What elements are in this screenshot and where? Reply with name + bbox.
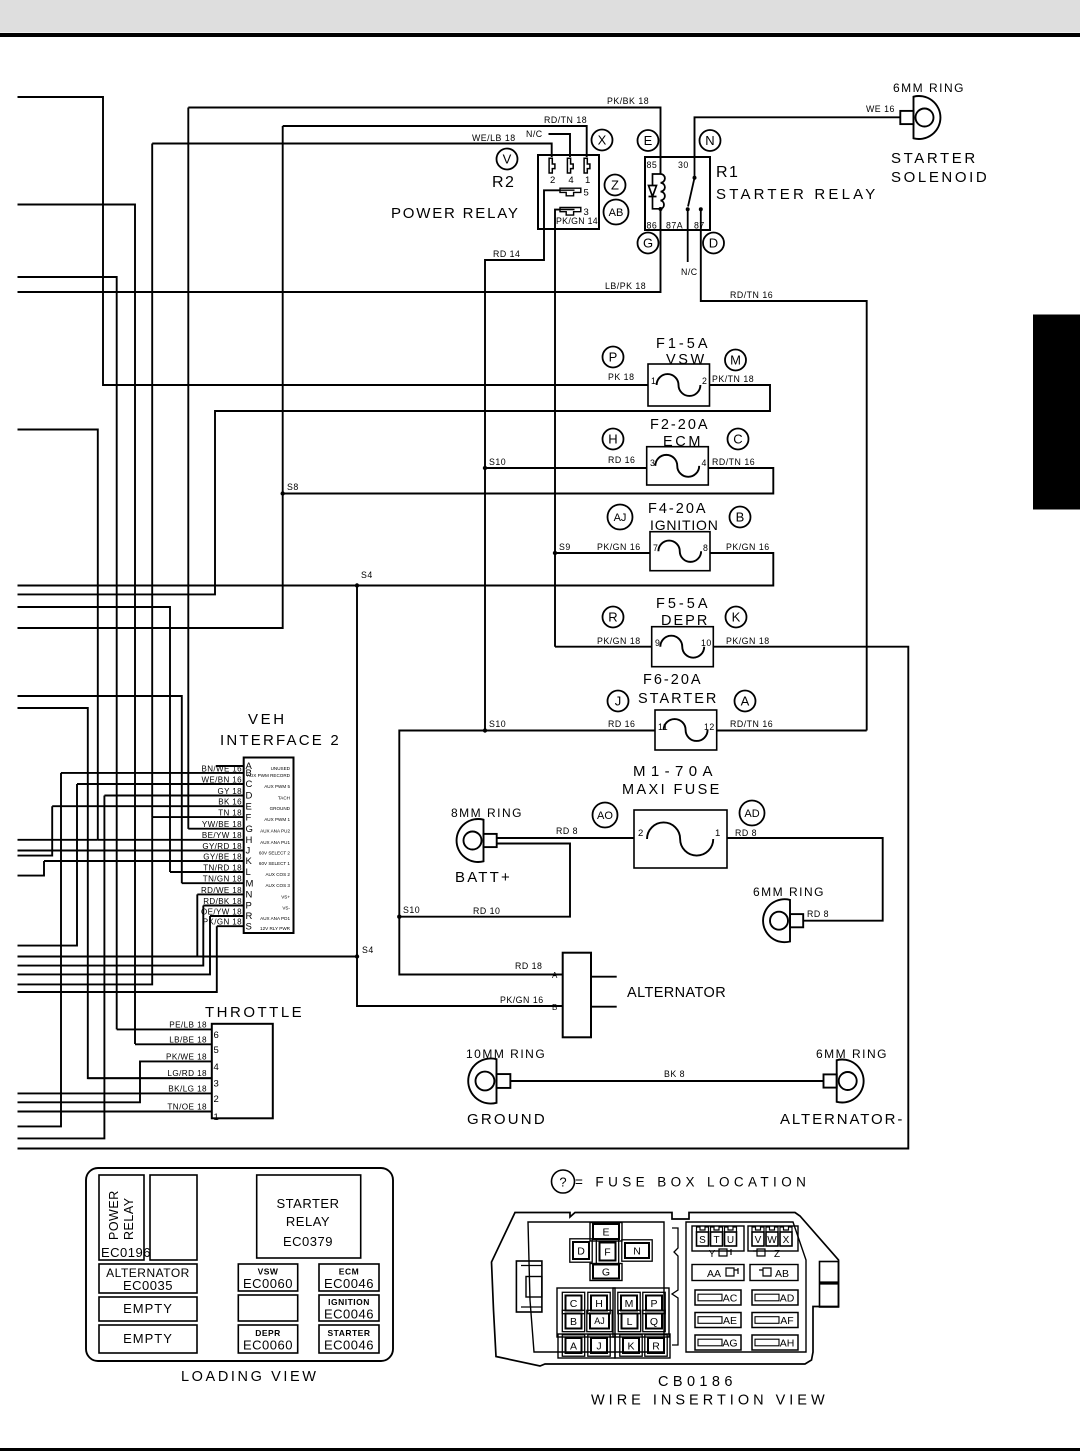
svg-text:PK/GN 18: PK/GN 18 [726,636,770,646]
header rule [0,33,1080,37]
svg-text:GY 18: GY 18 [217,787,242,796]
empty fuse slot [238,1295,297,1321]
fuse box location G [638,233,659,254]
svg-text:AA: AA [707,1268,721,1280]
svg-text:STARTER: STARTER [891,150,978,167]
svg-text:H: H [608,432,617,447]
CB0186 fuse box outer outline [492,1213,839,1367]
svg-text:ECM: ECM [663,434,703,450]
svg-text:F: F [246,812,252,823]
starter solenoid ring terminal [900,96,940,139]
svg-text:N: N [246,890,253,901]
cavity AG [695,1335,741,1350]
cavity D [570,1239,592,1262]
svg-text:J: J [615,694,622,709]
svg-text:10MM RING: 10MM RING [466,1047,546,1061]
wire row P drop exit [18,906,204,966]
bottom row frame [558,1334,615,1358]
svg-text:DEPR: DEPR [255,1328,281,1338]
svg-text:RELAY: RELAY [286,1214,330,1229]
svg-text:F1-5A: F1-5A [656,336,711,352]
svg-text:AB: AB [775,1268,789,1280]
wire S8 riser from left edge y628 [18,126,283,628]
right mounting tab [820,1262,839,1308]
svg-text:TACH: TACH [278,796,290,801]
svg-text:H: H [246,835,253,846]
svg-text:AUX ANA PU2: AUX ANA PU2 [260,829,290,834]
svg-text:PK/GN 14: PK/GN 14 [556,216,598,226]
svg-text:W: W [767,1235,777,1246]
svg-text:STARTER: STARTER [277,1196,340,1211]
svg-text:R1: R1 [716,164,739,181]
wire S10 -> F2 pin 3 [485,467,647,469]
wire row K jog exit [18,861,45,876]
wire PK/WE to pin 4 [18,1061,212,1102]
svg-text:RD 16: RD 16 [608,455,635,465]
cavity AJ [587,1310,612,1331]
svg-text:AJ: AJ [614,512,627,524]
svg-text:4: 4 [702,458,707,468]
svg-text:X: X [783,1235,790,1246]
cavity M [618,1292,640,1313]
cavity AE [695,1313,741,1328]
svg-text:3: 3 [650,458,655,468]
svg-text:S4: S4 [361,570,373,580]
svg-text:S10: S10 [403,905,420,915]
fuse box location A [735,691,756,712]
wire bus: left y607 -> x170 [18,607,171,872]
svg-text:LOADING VIEW: LOADING VIEW [181,1369,319,1385]
svg-text:S8: S8 [287,482,299,492]
fuse box location C [728,429,749,450]
svg-text:RD/TN 18: RD/TN 18 [544,115,587,125]
svg-text:87A: 87A [666,221,683,231]
cavity N [622,1240,652,1261]
wire PK/BK 18: x188 bus top -> R1 coil 85 [188,108,660,175]
svg-text:RD/TN 16: RD/TN 16 [730,719,773,729]
svg-text:VS-: VS- [282,906,290,911]
wire PE/LB to pin 6 [117,1028,212,1030]
splice S4 #2 [355,954,359,958]
ground ring terminal [468,1058,510,1103]
R2 pin 2 [549,158,555,186]
left fuse cluster frame 2 [613,1288,669,1337]
wire row F drop exit [18,817,153,984]
svg-text:60V SELECT 2: 60V SELECT 2 [259,851,291,856]
svg-text:STARTER RELAY: STARTER RELAY [716,186,878,203]
svg-text:AD: AD [744,808,759,820]
svg-text:WIRE INSERTION VIEW: WIRE INSERTION VIEW [591,1393,829,1409]
svg-text:TN 18: TN 18 [218,809,242,818]
svg-text:TN/GN 18: TN/GN 18 [203,875,242,884]
wire row C drop exit [18,784,78,946]
svg-text:8: 8 [703,543,708,553]
svg-text:GROUND: GROUND [467,1111,547,1128]
splice S10 [483,466,487,470]
fuse box location E [638,130,659,151]
empty slot 1 [99,1297,197,1321]
svg-text:M1-70A: M1-70A [633,763,718,780]
svg-text:5: 5 [214,1045,219,1056]
fuse box location R [603,607,624,628]
wire row N drop to S4 rail [18,894,198,956]
svg-text:AUX COS 3: AUX COS 3 [265,883,290,888]
svg-text:RD 14: RD 14 [493,249,520,259]
svg-text:EC0046: EC0046 [324,1338,374,1353]
fuse box location legend [552,1170,575,1193]
svg-text:POWER: POWER [107,1190,121,1240]
wire GY 18 to VEH pin D [104,795,243,797]
svg-text:AE: AE [723,1315,737,1327]
wire bus: left y429 -> x97.8 [18,430,98,840]
svg-text:9: 9 [655,638,660,648]
svg-text:= FUSE BOX LOCATION: = FUSE BOX LOCATION [575,1175,810,1190]
cavity E [593,1224,619,1239]
center divider [672,1228,678,1345]
svg-text:D: D [246,791,253,802]
svg-text:G: G [643,236,653,251]
svg-text:PK 18: PK 18 [608,372,634,382]
R2 pin 1 [584,158,590,186]
splice S4 [355,583,359,587]
svg-text:1: 1 [214,1112,219,1123]
wire F6 pin12 -> x866 bus (to 87) [717,730,867,732]
cavity S [697,1227,709,1246]
svg-text:N: N [705,133,714,148]
alternator slot [99,1264,197,1293]
svg-text:J: J [596,1340,601,1352]
wire row S drop exit [18,926,217,992]
fuse box location AO [593,803,618,828]
svg-text:ALTERNATOR-: ALTERNATOR- [780,1111,904,1128]
wire F2 pin4 loop to S8 [283,468,774,494]
6MM ring terminal (RD 8) [763,899,803,942]
svg-text:ECM: ECM [339,1267,359,1277]
svg-text:BK 16: BK 16 [218,798,242,807]
wire S10 trunk: S10#2 to S10#3 to alternator A [399,731,562,975]
svg-text:B: B [552,1003,558,1012]
wire RD/TN 16: R1 pin 87 down/right to x866 bus [701,230,867,731]
wire OE/YW 18 to VEH pin R [210,915,244,917]
svg-text:F: F [604,1246,610,1258]
left fuse cluster frame 1 [557,1288,615,1337]
wire row B drop to throttle area exit [18,773,62,1127]
cavity T [711,1227,723,1246]
alternator box [563,953,591,1038]
svg-text:F2-20A: F2-20A [650,417,710,433]
svg-text:V: V [503,152,512,167]
power relay R2 box [538,155,599,229]
wire RD 8: M1 pin1 -> 6MM ring [727,838,883,921]
cavity H [588,1292,610,1313]
svg-text:TN/OE 18: TN/OE 18 [167,1103,207,1112]
svg-text:RD 8: RD 8 [735,828,757,838]
cavity AD [752,1290,798,1305]
fuse box location H [603,429,624,450]
ignition fuse slot [319,1295,379,1321]
svg-text:BE/YW 18: BE/YW 18 [202,831,242,840]
alternator stub pins right [591,976,617,978]
svg-text:K: K [246,856,253,867]
svg-text:5: 5 [584,188,589,199]
svg-text:G: G [602,1266,610,1278]
svg-text:30: 30 [678,160,689,170]
svg-text:L: L [627,1316,633,1328]
svg-text:AO: AO [597,810,613,822]
svg-text:Z: Z [611,178,619,193]
svg-text:EC0035: EC0035 [123,1278,173,1293]
svg-text:WE 16: WE 16 [866,104,895,114]
svg-text:S4: S4 [362,945,374,955]
svg-text:1: 1 [585,175,590,186]
fuse box location X [592,130,613,151]
R2 pin 5 [560,188,589,199]
svg-text:IGNITION: IGNITION [328,1297,370,1307]
wire LG/RD to pin 3 [88,1077,212,1079]
svg-text:CB0186: CB0186 [658,1374,737,1390]
wire RD 14: R2 pin5 -> S10 bus [485,190,560,730]
cavity W [766,1227,778,1246]
svg-text:85: 85 [647,160,658,170]
svg-text:AH: AH [780,1338,795,1350]
wire YW/BE 18 to VEH pin G [188,828,243,830]
svg-text:AUX PWM 1: AUX PWM 1 [264,817,290,822]
svg-text:PK/GN 16: PK/GN 16 [597,542,641,552]
svg-text:LB/PK 18: LB/PK 18 [605,281,646,291]
svg-text:LG/RD 18: LG/RD 18 [167,1069,207,1078]
splice S10 #3 [397,915,401,919]
svg-text:RELAY: RELAY [122,1197,136,1240]
svg-text:AF: AF [780,1315,793,1327]
svg-text:B: B [570,1316,577,1328]
svg-text:6MM RING: 6MM RING [893,81,965,95]
svg-text:A: A [570,1340,577,1352]
cavity Q [643,1310,665,1331]
splice S8 [281,491,285,495]
cavity Y [709,1249,731,1260]
fuse box location N [700,130,721,151]
svg-text:AUX PWM 5: AUX PWM 5 [264,784,290,789]
svg-text:L: L [246,867,251,878]
cavity Z [753,1249,780,1260]
svg-text:Y: Y [709,1249,716,1260]
fuse F6 [655,710,717,750]
cavity AF [752,1313,798,1328]
wire F4 pin8 loop to S4 line [18,553,774,586]
fuse box location AB [604,200,629,225]
wire F1 pin2 loop to left edge [18,385,771,594]
svg-text:S: S [246,921,252,932]
wire row E jog exit [18,806,53,855]
svg-text:10: 10 [701,638,712,648]
right cluster S T U with prongs [692,1226,744,1251]
svg-text:BK/LG 18: BK/LG 18 [168,1084,207,1093]
svg-text:R: R [608,610,617,625]
svg-text:E: E [644,133,653,148]
wire bus: left y696 -> x181.8 [18,696,182,883]
fuse box location D [703,233,724,254]
svg-text:R2: R2 [492,174,515,191]
svg-text:R: R [652,1340,660,1352]
wire TN 18 to VEH pin F [152,816,244,818]
svg-text:EC0196: EC0196 [101,1245,151,1260]
wire RD/BK 18 to VEH pin P [203,905,243,907]
svg-text:C: C [570,1298,578,1310]
R2 pin 3 [560,207,589,218]
svg-text:F6-20A: F6-20A [643,672,703,688]
svg-text:?: ? [559,1175,566,1190]
svg-text:S10: S10 [489,719,506,729]
empty slot 2 [99,1325,197,1353]
wire S9 -> F4 pin 7 [555,552,650,554]
wire row J exit [18,850,41,852]
fuse F5 [652,627,714,667]
svg-text:PE/LB 18: PE/LB 18 [169,1020,207,1029]
svg-text:N/C: N/C [526,129,543,139]
svg-text:M: M [730,353,741,368]
wire BK 8 ground to alternator- ring [511,1080,824,1082]
svg-text:VSW: VSW [258,1267,279,1277]
wire BK 16 to VEH pin E [52,805,244,807]
cavity AH [752,1335,798,1350]
fuse box location AJ [608,505,633,530]
cavity A [562,1335,584,1356]
svg-text:RD/TN 16: RD/TN 16 [730,290,773,300]
svg-text:UNUSED: UNUSED [271,766,291,771]
fuse box location V [497,149,518,170]
wire bus: left y204 -> x135 [18,205,136,1045]
svg-text:1: 1 [715,828,721,839]
cavity L [618,1310,640,1331]
wire TN/OE to pin 1 [18,1111,212,1113]
inner outline right half [686,1222,806,1352]
R2 pin 4 [567,158,573,186]
fuse box location B [730,507,751,528]
svg-text:PK/BK 18: PK/BK 18 [607,96,649,106]
svg-text:A: A [552,971,558,980]
splice S9 [553,551,557,555]
svg-text:60V SELECT 1: 60V SELECT 1 [259,861,291,866]
cavity X [780,1227,792,1246]
right side black tab [1033,315,1080,510]
cavity C [562,1292,584,1313]
cavity J [588,1335,610,1356]
svg-text:2: 2 [550,175,555,186]
wire F5 pin10 -> x908 bus -> bottom rail [18,647,909,1149]
svg-text:87: 87 [694,221,705,231]
svg-text:GY/BE 18: GY/BE 18 [203,852,242,861]
svg-text:A: A [741,694,750,709]
cavity AB [750,1265,798,1281]
svg-text:V: V [755,1235,762,1246]
svg-text:P: P [650,1298,657,1310]
VEH interface 2 connector box [244,758,294,934]
cavity K [620,1335,642,1356]
svg-text:BN/WE 16: BN/WE 16 [201,764,242,773]
wire RD 8 ring to M1 pin2 [497,837,634,839]
svg-text:N: N [633,1245,641,1257]
svg-text:E: E [602,1226,609,1238]
wire WE/BN 16 to VEH pin C [77,783,244,785]
svg-text:11: 11 [658,722,668,732]
wire GY/BE 18 to VEH pin K [44,860,244,862]
svg-text:U: U [727,1235,734,1246]
svg-text:VS+: VS+ [281,894,290,899]
svg-text:STARTER: STARTER [327,1328,370,1338]
right cluster V W X with prongs [748,1226,798,1251]
svg-text:3: 3 [214,1079,219,1090]
wire BK/LG to pin 2 [18,1092,212,1094]
svg-text:S9: S9 [559,542,571,552]
cavity AC [695,1290,741,1305]
svg-text:8MM RING: 8MM RING [451,806,523,820]
empty relay slot [150,1175,197,1260]
svg-text:C: C [246,779,253,790]
fuse box location P [603,347,624,368]
svg-text:OE/YW 18: OE/YW 18 [201,907,242,916]
wire RD/TN 18: S8 bus -> R2 pin 1 [283,126,587,157]
loading view outer box [86,1168,393,1361]
svg-text:STARTER: STARTER [638,691,718,707]
svg-text:6: 6 [214,1030,219,1041]
svg-text:WE/BN 16: WE/BN 16 [201,775,242,784]
svg-text:Q: Q [650,1316,658,1328]
STARTER fuse slot [319,1325,379,1353]
svg-text:T: T [713,1235,719,1246]
svg-text:F4-20A: F4-20A [648,501,708,517]
splice S10 #2 [483,728,487,732]
fuse box location Z [605,175,626,196]
R1 pin 87A N/C stub [687,230,689,262]
cavity F [596,1239,618,1263]
wire row D drop exit [18,796,105,1139]
svg-text:EC0060: EC0060 [243,1338,293,1353]
svg-text:D: D [709,236,718,251]
bottom rule [0,1448,1080,1451]
wire WE/LB 18: x152 bus -> R2 pin 2 [152,144,552,158]
svg-text:POWER RELAY: POWER RELAY [391,205,520,222]
svg-text:S10: S10 [489,457,506,467]
wire BE/YW 18 to VEH pin H [98,839,244,841]
fuse box location J [608,691,629,712]
svg-text:86: 86 [647,221,658,231]
inner outline left half [528,1222,664,1352]
svg-text:AD: AD [780,1293,795,1305]
svg-text:EMPTY: EMPTY [123,1331,173,1346]
svg-text:AC: AC [723,1293,738,1305]
wire S9 drop -> F5 pin 9 [555,646,652,648]
svg-text:7: 7 [653,543,658,553]
wire LB/PK 18: left edge to R1 coil 86 [18,209,661,292]
svg-text:VSW: VSW [666,352,707,368]
svg-text:EC0046: EC0046 [324,1307,374,1322]
svg-text:E: E [246,801,252,812]
svg-text:RD 18: RD 18 [515,961,542,971]
wire WE 16 from R1 pin30 to solenoid [695,117,901,157]
svg-text:H: H [595,1298,603,1310]
svg-text:BK 8: BK 8 [664,1069,685,1079]
svg-text:AUX PWM RECORD: AUX PWM RECORD [247,773,291,778]
throttle connector box [212,1024,273,1119]
svg-text:4: 4 [214,1062,219,1073]
svg-text:M: M [246,878,254,889]
svg-text:2: 2 [702,376,707,386]
cavity G [593,1265,619,1279]
svg-text:VEH: VEH [248,711,287,728]
wire PK/GN 18 to VEH pin S [217,925,244,927]
svg-text:PK/TN 18: PK/TN 18 [712,374,754,384]
fuse F2 [647,447,709,485]
